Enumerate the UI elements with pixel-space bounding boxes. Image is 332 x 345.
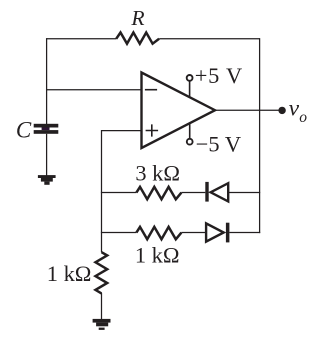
- wire middle vertical (plus input down to 1k): [101, 130, 103, 252]
- -5V supply terminal circle: [187, 139, 193, 145]
- capacitor C bottom plate: [34, 130, 59, 134]
- wire branch1 middle segment: [181, 192, 205, 194]
- wire branch1 left segment: [101, 192, 136, 194]
- +5V supply stem: [189, 81, 191, 97]
- svg-text:3 kΩ: 3 kΩ: [135, 161, 180, 186]
- svg-text:1 kΩ: 1 kΩ: [135, 242, 180, 267]
- wire inverting input (node A): [47, 89, 142, 91]
- resistor 1k (branch2) zigzag: [136, 227, 181, 239]
- diode D1 cathode bar: [205, 182, 208, 202]
- diode D2 cathode bar: [226, 223, 230, 243]
- svg-text:1 kΩ: 1 kΩ: [47, 261, 92, 286]
- wire branch2 right segment: [229, 232, 260, 234]
- capacitor C top plate: [34, 124, 59, 128]
- wire 1k to ground: [101, 293, 103, 320]
- svg-text:o: o: [299, 109, 307, 126]
- wire branch2 left segment: [101, 232, 136, 234]
- svg-text:R: R: [130, 6, 144, 30]
- wire top horizontal left segment: [47, 38, 117, 40]
- wire left vertical from top wire to capacitor: [46, 38, 48, 124]
- wire branch1 right segment: [228, 192, 260, 194]
- resistor 3k zigzag: [136, 187, 181, 199]
- node vo output dot: [278, 107, 285, 114]
- resistor 1k vertical zigzag: [96, 252, 108, 293]
- wire capacitor to ground: [46, 134, 48, 176]
- wire right vertical (feedback to diode branches): [259, 38, 261, 233]
- +5V supply terminal circle: [187, 75, 193, 81]
- op-amp U1 triangle: [142, 73, 216, 149]
- diode D2 triangle (points right): [206, 223, 224, 241]
- op-amp plus symbol: [146, 124, 159, 136]
- svg-text:−5 V: −5 V: [196, 132, 242, 157]
- ground (left, below C): [38, 175, 56, 185]
- diode D1 triangle (points left): [211, 183, 229, 201]
- wire op-amp output: [215, 109, 279, 111]
- svg-text:+5 V: +5 V: [195, 63, 243, 88]
- svg-text:C: C: [16, 117, 32, 142]
- op-amp minus symbol: [145, 89, 157, 91]
- wire non-inverting input: [102, 130, 142, 132]
- wire branch2 middle segment: [181, 232, 206, 234]
- wire top horizontal right segment: [159, 38, 259, 40]
- ground (bottom, below 1k): [93, 319, 111, 330]
- capacitor C gap tint: [42, 128, 50, 131]
- -5V supply stem: [189, 123, 191, 139]
- resistor R zigzag: [116, 33, 159, 44]
- svg-text:v: v: [289, 96, 300, 122]
